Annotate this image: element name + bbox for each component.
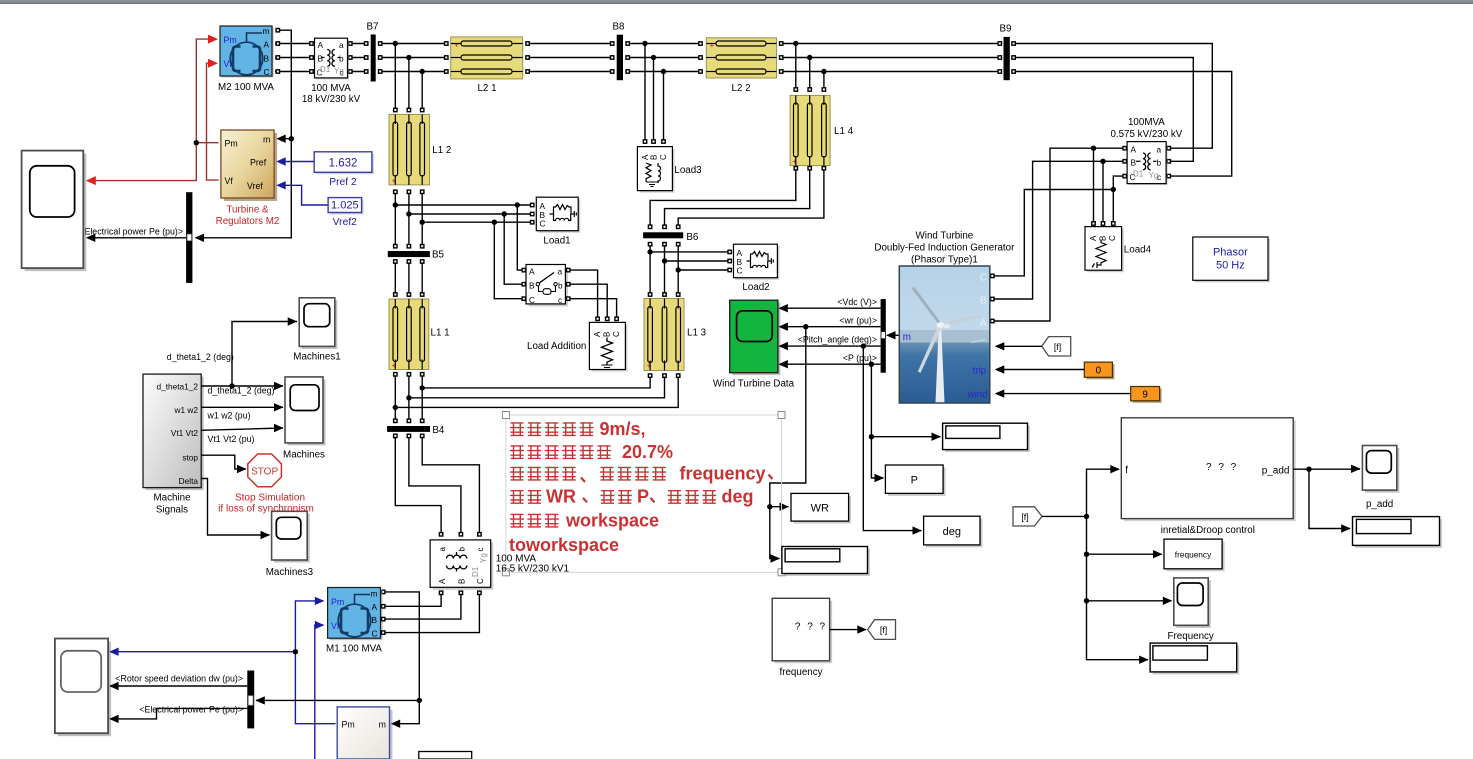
svg-text:<Pitch_angle (deg)>: <Pitch_angle (deg)>: [798, 335, 877, 345]
wire m net: machine M2 m output to regulator m input and selector: [197, 30, 291, 238]
svg-text:Regulators M2: Regulators M2: [216, 216, 280, 227]
svg-text:B: B: [318, 54, 324, 64]
svg-text:<P (pu)>: <P (pu)>: [843, 353, 877, 363]
svg-text:B7: B7: [367, 22, 379, 33]
svg-text:Pm: Pm: [342, 720, 355, 730]
svg-text:m: m: [263, 135, 270, 145]
svg-text:C: C: [476, 578, 485, 584]
wire B9 to transformer T3 right ports: [1014, 44, 1232, 177]
subsystem Turbine & Regulators M1 (partially visible, selected): [337, 707, 392, 759]
svg-text:+: +: [710, 40, 715, 50]
svg-text:L1 1: L1 1: [431, 328, 450, 339]
scope Machines1: [293, 298, 340, 363]
svg-text:0.575 kV/230 kV: 0.575 kV/230 kV: [1110, 129, 1182, 140]
transformer T1 100 MVA 16.5 kV/230 kV1: [430, 540, 569, 590]
wire constant 9 to wind input: [996, 393, 1131, 395]
wire L2 2 to bus B9 with taps to L1 4: [779, 44, 1002, 89]
line L1 1: [389, 299, 450, 370]
wire L1 4 bottom to B6 top: [650, 168, 824, 229]
svg-text:<Electrical power Pe (pu)>: <Electrical power Pe (pu)>: [139, 705, 243, 715]
wire P tap down to display and P goto: [871, 364, 940, 478]
svg-text:wind: wind: [967, 390, 988, 401]
wire B4 down to transformer T1: [395, 434, 479, 533]
svg-text:L1 4: L1 4: [834, 126, 854, 137]
wire Vdc signal to green scope: [780, 307, 881, 309]
scope Scope2 (bottom left): [55, 639, 111, 737]
svg-text:C: C: [540, 219, 546, 229]
svg-text:c: c: [558, 295, 562, 305]
subsystem frequency (measurement): [772, 598, 832, 678]
svg-text:[f]: [f]: [880, 625, 887, 635]
svg-text:WR: WR: [546, 487, 576, 507]
svg-text:b: b: [1157, 158, 1162, 168]
svg-text:Machines: Machines: [283, 450, 325, 461]
svg-text:? ? ?: ? ? ?: [1206, 462, 1238, 473]
svg-text:a: a: [438, 547, 447, 552]
constant 9 (wind speed): [1131, 387, 1162, 403]
svg-text:L1 2: L1 2: [432, 145, 451, 156]
from tag [f] feeding turbine input: [1042, 337, 1071, 356]
constant Pref 2 (1.632): [314, 152, 374, 188]
breaker 3-phase: [526, 265, 568, 307]
svg-text:20.7%: 20.7%: [622, 442, 673, 462]
line L1 3: [644, 299, 707, 371]
svg-text:stop: stop: [182, 453, 198, 463]
svg-text:if loss of synchronism: if loss of synchronism: [218, 504, 314, 515]
wire from tag to droop f input and frequency blocks: [1042, 469, 1172, 660]
svg-text:C: C: [980, 273, 987, 284]
svg-text:m: m: [371, 589, 378, 599]
svg-text:1.025: 1.025: [331, 200, 359, 212]
wire from tag to turbine 4th input: [996, 345, 1042, 347]
scope Scope1: [22, 151, 87, 272]
svg-text:f: f: [1125, 465, 1128, 476]
svg-text:B6: B6: [686, 232, 699, 243]
svg-text:1.632: 1.632: [329, 158, 358, 170]
wire w1 w2 to Machines: [201, 406, 283, 408]
wire L1 2 columns down to B5 with taps to Load1 and breaker: [395, 192, 530, 299]
wire d_theta1_2 to Machines and Machines1: [201, 322, 297, 387]
turbine tower and blades: [912, 287, 983, 403]
display Display1: [943, 423, 1030, 452]
svg-text:<Rotor speed deviation dw (pu: <Rotor speed deviation dw (pu)>: [115, 674, 243, 684]
goto P: [885, 465, 945, 496]
annotation selection box: [506, 415, 782, 572]
partially visible block at bottom edge: [419, 752, 472, 759]
svg-text:WR: WR: [811, 503, 829, 515]
svg-text:p_add: p_add: [1366, 499, 1393, 510]
svg-text:Stop Simulation: Stop Simulation: [235, 493, 305, 504]
line L2 1: [451, 37, 523, 94]
scope Frequency: [1168, 578, 1214, 642]
wire L1 1 columns to B4 with cross links to L1 3: [395, 372, 678, 419]
svg-text:D1: D1: [1133, 170, 1144, 179]
svg-text:L1 3: L1 3: [687, 328, 707, 339]
svg-text:M1 100 MVA: M1 100 MVA: [326, 644, 382, 655]
svg-text:d_theta1_2 (deg): d_theta1_2 (deg): [208, 386, 275, 396]
svg-text:A: A: [318, 40, 324, 50]
svg-text:Yg: Yg: [1149, 171, 1159, 180]
constant 0 (trip): [1084, 362, 1114, 379]
line L1 4: [790, 95, 854, 166]
svg-text:Delta: Delta: [179, 476, 199, 486]
wire selector1 to scope1 Pe signal: [88, 237, 186, 239]
bus B6: [643, 232, 683, 238]
svg-text:Frequency: Frequency: [1168, 631, 1214, 642]
svg-text:b: b: [339, 54, 344, 64]
goto tag [f] output of frequency: [868, 620, 896, 640]
svg-text:b: b: [458, 547, 467, 552]
svg-text:C: C: [372, 629, 378, 639]
svg-text:Vt1 Vt2: Vt1 Vt2: [171, 428, 199, 438]
signal selector1 (vertical black bar): [186, 192, 192, 283]
svg-text:B: B: [458, 579, 467, 584]
svg-text:toworkspace: toworkspace: [509, 535, 619, 555]
svg-text:m: m: [379, 720, 386, 730]
svg-text:B: B: [980, 296, 987, 307]
line L2 2: [706, 38, 776, 94]
annotation red text line 5: send to workspace: [510, 510, 659, 530]
svg-text:A: A: [264, 40, 270, 50]
display Display2: [782, 547, 870, 577]
svg-text:B: B: [1099, 236, 1108, 241]
svg-text:B: B: [1131, 158, 1137, 168]
svg-text:deg: deg: [722, 487, 754, 507]
load Load3: [637, 147, 702, 193]
svg-text:? ? ?: ? ? ?: [795, 622, 827, 633]
signal selector3 (vertical black bar): [247, 671, 254, 729]
svg-text:B: B: [529, 281, 535, 291]
wire constant 0 to trip input: [996, 369, 1084, 371]
svg-text:C: C: [529, 295, 535, 305]
svg-text:[f]: [f]: [1021, 512, 1028, 522]
svg-text:Wind Turbine: Wind Turbine: [916, 231, 974, 242]
svg-text:b: b: [558, 281, 563, 291]
svg-text:w1 w2 (pu): w1 w2 (pu): [207, 410, 251, 420]
signal selector2 (vertical black bar by turbine): [881, 299, 886, 373]
annotation red text line 2: wind penetration 20.7%: [510, 442, 673, 462]
svg-text:B: B: [264, 54, 270, 64]
svg-text:Vf: Vf: [225, 176, 234, 186]
svg-text:Machines1: Machines1: [293, 352, 340, 363]
svg-text:inretial&Droop control: inretial&Droop control: [1161, 525, 1255, 536]
svg-text:Pm: Pm: [224, 35, 237, 45]
transformer 100 MVA 18 kV/230 kV: [302, 38, 361, 105]
phasor 50 Hz powergui block: [1193, 237, 1270, 282]
svg-text:B4: B4: [432, 425, 445, 436]
wind turbine DFIG block (photo): [874, 231, 1015, 404]
wire Delta to Machines3: [201, 479, 269, 536]
wire B7 to line L2 1 with taps to L1 2: [379, 44, 449, 109]
svg-text:100 MVA: 100 MVA: [311, 83, 351, 94]
svg-text:c: c: [476, 548, 485, 552]
svg-text:A: A: [1131, 145, 1137, 155]
svg-text:+: +: [454, 40, 459, 50]
constant Vref2 (1.025): [328, 198, 364, 228]
line L1 2: [389, 114, 451, 185]
wire wr signal to green scope with tap: [780, 326, 881, 328]
svg-text:9: 9: [1142, 390, 1147, 401]
svg-text:Pm: Pm: [331, 597, 344, 607]
svg-text:B9: B9: [1000, 24, 1012, 35]
svg-text:d_theta1_2: d_theta1_2: [156, 382, 198, 392]
svg-text:deg: deg: [943, 526, 961, 538]
wire breaker outputs to Load Addition: [568, 270, 617, 317]
svg-text:Pref: Pref: [250, 158, 267, 168]
svg-text:w1 w2: w1 w2: [173, 405, 198, 415]
svg-text:a: a: [558, 267, 563, 277]
bus B5: [388, 251, 430, 257]
machine M1 100 MVA: [326, 588, 382, 655]
svg-text:Load3: Load3: [674, 165, 702, 176]
svg-text:B: B: [372, 615, 378, 625]
wire turbine m to selector2: [887, 334, 899, 336]
wire machine M1 phases to transformer T1: [383, 594, 479, 633]
wire stop to STOP block: [201, 455, 246, 469]
wire P signal to green scope with tap: [780, 363, 881, 365]
svg-text:trip: trip: [973, 366, 987, 377]
machine M2 100 MVA: [218, 26, 274, 93]
svg-text:Load4: Load4: [1124, 245, 1152, 256]
svg-text:C: C: [1108, 235, 1117, 241]
wire Pitch_angle signal to green scope with tap: [780, 345, 881, 347]
svg-text:Phasor: Phasor: [1213, 247, 1248, 259]
svg-text:C: C: [612, 331, 621, 337]
bus B9: [1004, 37, 1010, 80]
wire B8 to line L2 2 with taps to Load3: [628, 44, 703, 141]
svg-text:Vf: Vf: [224, 59, 233, 69]
svg-text:d_theta1_2 (deg): d_theta1_2 (deg): [167, 352, 234, 362]
svg-text:C: C: [737, 266, 743, 276]
subsystem Machine Signals: [143, 374, 204, 515]
svg-text:M2 100 MVA: M2 100 MVA: [218, 82, 274, 93]
svg-text:L2 1: L2 1: [477, 83, 496, 94]
load Load1: [536, 197, 580, 246]
svg-text:D1: D1: [471, 566, 480, 577]
wire red Pm net: turbine regulator Pm to machine M2 Pm and scope: [88, 39, 219, 181]
wire selector3 dw output to scope2: [111, 685, 248, 687]
annotation red text line 4: speed WR power P pitch deg: [510, 487, 754, 507]
scope Machines3: [266, 511, 314, 578]
transformer 100MVA 0.575 kV/230 kV: [1110, 117, 1182, 185]
annotation red text line 1: wind speed set to 9m/s: [510, 419, 646, 439]
display Display4: [1353, 517, 1443, 548]
bus B4: [387, 426, 430, 432]
svg-text:B8: B8: [613, 22, 626, 33]
wire red Vf net: turbine regulator Vf to machine M2 Vf: [207, 63, 219, 180]
stop simulation STOP block: [218, 454, 314, 515]
goto frequency small block: [1164, 539, 1225, 571]
wire p_add output to scope and display: [1293, 469, 1360, 528]
scope p_add: [1362, 446, 1399, 511]
svg-text:Load Addition: Load Addition: [527, 341, 586, 352]
wire B5 to L1 1 columns: [395, 259, 422, 293]
svg-text:p_add: p_add: [1262, 466, 1290, 477]
wire M2 to transformer T2 phases A B C: [275, 44, 311, 72]
svg-text:Load1: Load1: [543, 236, 570, 247]
svg-text:STOP: STOP: [251, 467, 278, 478]
svg-text:Pref 2: Pref 2: [329, 177, 357, 188]
svg-text:B: B: [650, 155, 659, 160]
wire Pitch tap down to deg goto: [863, 346, 921, 530]
svg-text:<Electrical power Pe (pu)>: <Electrical power Pe (pu)>: [79, 227, 183, 237]
goto deg: [924, 516, 983, 547]
svg-text:16.5 kV/230 kV1: 16.5 kV/230 kV1: [496, 564, 570, 575]
wire selector3 Pe output to scope2: [111, 708, 248, 719]
from tag [f] feeding droop control: [1013, 507, 1042, 526]
svg-text:Wind Turbine Data: Wind Turbine Data: [713, 379, 795, 390]
bus B7: [371, 35, 376, 82]
svg-text:a: a: [1157, 145, 1162, 155]
scope Machines: [283, 377, 325, 461]
subsystem inretial&Droop control: [1121, 418, 1295, 536]
svg-text:Machines3: Machines3: [266, 567, 314, 578]
svg-text:C: C: [264, 67, 270, 77]
svg-text:100MVA: 100MVA: [1128, 117, 1165, 128]
svg-text:9m/s,: 9m/s,: [600, 419, 646, 439]
svg-text:(Phasor Type)1: (Phasor Type)1: [911, 255, 978, 266]
svg-text:18 kV/230 kV: 18 kV/230 kV: [302, 94, 361, 105]
svg-text:0: 0: [1096, 366, 1102, 377]
wire Vref2 constant to Vref input: [278, 185, 328, 205]
svg-text:m: m: [903, 332, 911, 343]
svg-text:A: A: [529, 267, 535, 277]
svg-text:50 Hz: 50 Hz: [1216, 260, 1245, 272]
svg-text:Doubly-Fed Induction Generator: Doubly-Fed Induction Generator: [874, 243, 1015, 254]
goto WR: [791, 493, 851, 523]
svg-text:A: A: [980, 318, 987, 329]
svg-text:Yg: Yg: [334, 67, 344, 76]
svg-text:A: A: [438, 578, 447, 584]
svg-text:L2 2: L2 2: [731, 83, 750, 94]
svg-text:Vref2: Vref2: [333, 217, 358, 228]
wire wr tap down to WR goto and display: [770, 327, 806, 559]
annotation red text line 3: for comparison set frequency: [510, 463, 773, 483]
wire turbine phase B to transformer T3 and Load4: [995, 161, 1125, 299]
svg-text:frequency: frequency: [680, 463, 766, 483]
svg-text:Signals: Signals: [156, 505, 188, 516]
wire frequency subsystem to goto tag: [830, 629, 866, 631]
wire Pref2 constant to Pref input: [278, 161, 314, 163]
wire Vt1 Vt2 to Machines: [201, 428, 283, 430]
svg-text:Pm: Pm: [225, 139, 238, 149]
svg-text:a: a: [339, 40, 344, 50]
wire L2 1 to bus B8: [526, 44, 615, 72]
svg-text:A: A: [372, 602, 378, 612]
svg-text:[f]: [f]: [1054, 342, 1061, 352]
svg-text:workspace: workspace: [565, 510, 659, 530]
svg-text:B5: B5: [432, 250, 445, 261]
scope Wind Turbine Data (green): [713, 300, 795, 389]
svg-text:Yg: Yg: [479, 553, 488, 563]
svg-text:C: C: [659, 154, 668, 160]
svg-text:frequency: frequency: [1175, 550, 1212, 560]
load Load Addition: [527, 322, 627, 371]
svg-text:Turbine &: Turbine &: [226, 205, 269, 216]
svg-text:frequency: frequency: [779, 667, 822, 678]
wire B6 to L1 3 columns with taps to Load2: [650, 244, 727, 294]
svg-text:Vt1 Vt2 (pu): Vt1 Vt2 (pu): [208, 434, 255, 444]
subsystem Turbine & Regulators M2: [216, 130, 280, 227]
wire turbine phase A to transformer T3 and Load4: [995, 148, 1125, 321]
svg-text:A: A: [593, 331, 602, 337]
load Load2: [734, 244, 780, 293]
svg-text:P: P: [637, 487, 649, 507]
top window edge bar: [0, 0, 1473, 3]
svg-text:B: B: [603, 332, 612, 337]
wire m net: machine M1 m output to selector3 and regulator m input: [256, 592, 419, 724]
svg-text:m: m: [263, 26, 270, 36]
wire T2 to bus B7: [350, 44, 368, 72]
svg-text:A: A: [1089, 235, 1098, 241]
svg-text:D1: D1: [320, 65, 331, 74]
wire blue Pm net: regulator M1 Pm to machine M1 Pm and scope2: [111, 601, 336, 724]
svg-text:Vref: Vref: [247, 181, 263, 191]
wire turbine phase C to transformer T3 and Load4: [995, 176, 1125, 276]
svg-text:P: P: [911, 475, 918, 487]
svg-text:<wr (pu)>: <wr (pu)>: [839, 315, 877, 325]
svg-text:<Vdc (V)>: <Vdc (V)>: [837, 297, 877, 307]
display Display3: [1150, 643, 1239, 674]
load Load4: [1085, 227, 1152, 273]
bus B8: [617, 35, 623, 80]
svg-text:Load2: Load2: [742, 282, 769, 293]
wire blue Vf net to machine M1 Vf: [315, 625, 324, 759]
svg-text:Machine: Machine: [153, 493, 191, 504]
svg-text:Vf: Vf: [331, 621, 340, 631]
